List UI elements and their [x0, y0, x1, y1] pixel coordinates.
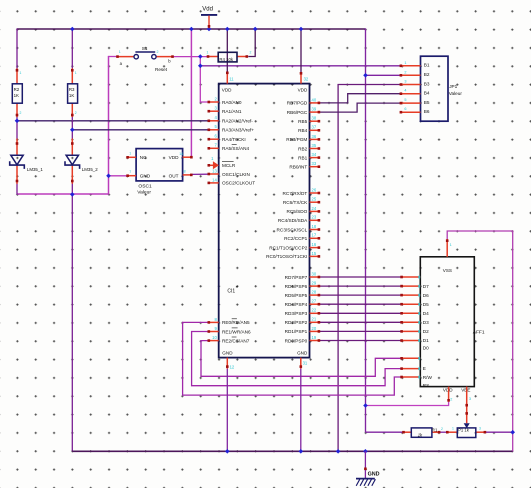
svg-text:2: 2 — [441, 427, 443, 431]
svg-text:RA4/T0CKI: RA4/T0CKI — [222, 137, 246, 142]
svg-text:RD0/PSP0: RD0/PSP0 — [285, 338, 308, 343]
junction — [363, 403, 368, 408]
svg-text:RD6/PSP6: RD6/PSP6 — [285, 284, 308, 289]
wire B2 horizontal — [366, 74, 401, 76]
svg-text:GND: GND — [368, 472, 380, 478]
svg-text:35: 35 — [312, 143, 317, 148]
svg-text:B4: B4 — [424, 91, 430, 96]
svg-text:14: 14 — [212, 177, 217, 182]
wire left column x17 upper — [16, 28, 18, 68]
svg-text:37: 37 — [312, 125, 317, 130]
PIC pin RC1/T1OSI/CCP2 — [269, 245, 320, 250]
wire LM35_1 node vertical — [16, 115, 18, 139]
svg-text:2: 2 — [157, 50, 159, 54]
svg-text:RC0/T1OSO/T1CKI: RC0/T1OSO/T1CKI — [266, 254, 307, 259]
svg-text:36: 36 — [312, 134, 317, 139]
wire OSC1 OUT to PIC OSC1/CLKIN — [191, 173, 209, 175]
svg-text:34: 34 — [312, 152, 317, 157]
svg-text:RD1/PSP1: RD1/PSP1 — [285, 329, 308, 334]
wire RD4/PSP4 to LCD D4 — [319, 303, 401, 305]
svg-text:R3: R3 — [69, 87, 75, 92]
wire Vdd rail right side x365.5 — [365, 28, 367, 432]
wire B1 horizontal y65.8 — [200, 65, 401, 67]
LCD pin stub — [402, 285, 421, 287]
svg-text:RB7/PGD: RB7/PGD — [287, 101, 308, 106]
svg-text:11: 11 — [229, 77, 234, 82]
PIC pin RD6/PSP6 — [285, 284, 321, 289]
svg-text:D1: D1 — [423, 338, 429, 343]
svg-text:1K: 1K — [69, 93, 74, 98]
svg-text:RB6/PGC: RB6/PGC — [287, 110, 308, 115]
svg-text:LM35_2: LM35_2 — [82, 167, 98, 172]
PIC pin RC7/RX/DT — [283, 191, 321, 196]
svg-text:R/W: R/W — [423, 375, 433, 380]
PIC pin RC5/SDO — [286, 209, 320, 214]
svg-text:2: 2 — [250, 51, 252, 55]
wire left column corner at LM35_1 bottom — [16, 184, 18, 195]
wire bus to PIC VDD right pin x301 — [300, 28, 302, 72]
svg-text:39: 39 — [312, 107, 317, 112]
LCD pin stub — [402, 330, 421, 332]
wire Vdd rail to OSC1 VDD x191.4 — [190, 28, 192, 157]
svg-text:JP1: JP1 — [449, 84, 457, 89]
svg-text:Valeur: Valeur — [137, 189, 151, 195]
PIC pin RB6/PGC — [287, 110, 320, 115]
PIC pin RA2/AN2/Vref- — [208, 119, 254, 124]
junction — [299, 27, 304, 32]
PIC pin RA5/SS/AN4 — [208, 145, 250, 151]
junction — [299, 449, 304, 454]
svg-text:RS: RS — [423, 383, 430, 388]
wire bus to R4 right pin — [248, 28, 255, 56]
svg-text:D3: D3 — [423, 320, 429, 325]
wire LM35_2 node vertical — [71, 115, 73, 139]
LCD pin stub — [402, 276, 421, 278]
svg-text:1: 1 — [207, 51, 209, 55]
PIC pin RC6/TX/CK — [283, 200, 320, 205]
wire Vdd top bus — [17, 28, 366, 30]
svg-text:8: 8 — [184, 170, 186, 174]
svg-text:RC3/SCK/SCL: RC3/SCK/SCL — [277, 227, 308, 232]
svg-text:RD7/PSP7: RD7/PSP7 — [285, 275, 308, 280]
svg-text:RB0/INT: RB0/INT — [289, 165, 307, 170]
svg-text:VDD: VDD — [222, 87, 232, 92]
wire RD3/PSP3 to LCD D3 — [319, 312, 401, 314]
svg-text:NC: NC — [140, 155, 147, 160]
junction — [198, 64, 203, 69]
svg-text:R1: R1 — [432, 428, 438, 433]
svg-text:12: 12 — [230, 364, 235, 369]
svg-text:10: 10 — [212, 335, 217, 340]
svg-text:17: 17 — [312, 233, 317, 238]
wire RE2 loop to LCD pin — [201, 341, 402, 377]
PIC pin RB2 — [298, 146, 320, 151]
wire RD1/PSP1 to LCD D1 — [319, 330, 401, 332]
svg-text:RC7/RX/DT: RC7/RX/DT — [283, 191, 308, 196]
wire node x200 vertical to RA0 — [200, 57, 209, 103]
PIC pin RE1/WR/AN6 — [208, 328, 252, 334]
svg-text:GND: GND — [140, 174, 151, 179]
svg-text:VEE: VEE — [461, 388, 470, 393]
svg-text:1: 1 — [404, 61, 406, 65]
resistor R3 1K — [68, 68, 78, 117]
svg-text:B6: B6 — [424, 109, 430, 114]
junction — [510, 430, 515, 435]
svg-text:RA3/AN3/Vref+: RA3/AN3/Vref+ — [222, 128, 254, 133]
svg-text:RD4/PSP4: RD4/PSP4 — [285, 302, 308, 307]
svg-text:RB1: RB1 — [298, 155, 308, 160]
PIC pin RA1/AN1 — [208, 109, 242, 114]
svg-text:AFF1: AFF1 — [473, 330, 485, 336]
wire switch row left segment — [109, 56, 118, 58]
resistor R2 1K — [12, 68, 22, 117]
svg-text:Vdd: Vdd — [202, 6, 213, 12]
svg-text:38: 38 — [312, 116, 317, 121]
resistor R4 10k — [207, 52, 248, 62]
wire ground return horizontal y194 — [17, 193, 109, 195]
PIC pin RD3/PSP3 — [285, 311, 321, 316]
svg-text:23: 23 — [312, 215, 317, 220]
junction — [198, 54, 203, 59]
junction — [70, 128, 75, 133]
svg-text:2: 2 — [450, 397, 452, 401]
svg-text:RC6/TX/CK: RC6/TX/CK — [283, 200, 308, 205]
svg-text:Valeur: Valeur — [449, 91, 463, 96]
svg-text:32: 32 — [304, 77, 309, 82]
svg-text:26: 26 — [312, 187, 317, 192]
svg-text:GND: GND — [222, 351, 233, 356]
svg-text:2: 2 — [404, 70, 406, 74]
svg-text:VDD: VDD — [169, 155, 180, 160]
svg-text:2: 2 — [75, 111, 77, 115]
svg-text:B1: B1 — [424, 63, 430, 68]
svg-text:30: 30 — [312, 271, 317, 276]
wire R1 to P1 link — [439, 431, 447, 433]
LCD display AFF1 — [420, 239, 474, 423]
wire LCD VDD tap y405.5 — [366, 402, 449, 406]
wire LM35_2 column down to ground bus — [71, 184, 73, 452]
potentiometer P1 1k — [446, 423, 486, 437]
svg-text:1K: 1K — [14, 93, 19, 98]
LCD pin stub — [402, 368, 421, 370]
junction — [225, 449, 230, 454]
svg-text:1: 1 — [452, 427, 454, 431]
junction — [207, 27, 212, 32]
PIC pin RE0/RD/AN5 — [208, 319, 251, 325]
PIC pin MCLR with arrow — [208, 161, 236, 169]
PIC pin RD5/PSP5 — [285, 293, 321, 298]
svg-text:14: 14 — [179, 152, 183, 156]
svg-text:RD3/PSP3: RD3/PSP3 — [285, 311, 308, 316]
svg-text:3: 3 — [479, 427, 481, 431]
svg-text:RE2/CS/AN7: RE2/CS/AN7 — [222, 338, 250, 343]
svg-text:RC4/SDI/SDA: RC4/SDI/SDA — [278, 218, 308, 223]
PIC pin OSC2/CLKOUT — [208, 181, 256, 186]
LCD pin stub — [402, 376, 421, 378]
svg-text:20: 20 — [312, 326, 317, 331]
wire switch left vertical x108.5 — [108, 56, 110, 195]
svg-text:RA2/AN2/Vref-: RA2/AN2/Vref- — [222, 119, 253, 124]
svg-text:1: 1 — [119, 50, 121, 54]
svg-text:3: 3 — [469, 397, 471, 401]
wire switch to R4 node segment — [173, 56, 209, 58]
wire RD2/PSP2 to LCD D2 — [319, 321, 401, 323]
svg-text:OSC2/CLKOUT: OSC2/CLKOUT — [222, 181, 255, 186]
resistor R1 1k — [402, 428, 440, 438]
wire RB6 to B5 — [319, 103, 401, 112]
svg-text:R4 10k: R4 10k — [219, 57, 233, 62]
wire B3 to ground bus via x338 — [338, 85, 401, 452]
wire RD7/PSP7 to LCD D7 — [319, 276, 401, 278]
PIC pin RD0/PSP0 — [285, 338, 321, 343]
svg-text:RB3/PGM: RB3/PGM — [286, 137, 307, 142]
oscillator OSC1 — [126, 149, 192, 196]
LCD pin stub — [402, 312, 421, 314]
PIC pin RA3/AN3/Vref+ — [208, 128, 255, 133]
svg-text:6: 6 — [404, 107, 406, 111]
LCD pin stub — [402, 303, 421, 305]
svg-text:RB2: RB2 — [298, 146, 308, 151]
junction — [15, 119, 20, 124]
PIC pin RB4 — [298, 128, 320, 133]
svg-text:3: 3 — [404, 80, 406, 84]
svg-text:16: 16 — [312, 242, 317, 247]
wire OSC1 GND tap — [109, 175, 130, 177]
svg-text:RA1/AN1: RA1/AN1 — [222, 109, 242, 114]
PIC pin RB0/INT — [289, 165, 320, 170]
PIC pin OSC1/CLKIN — [208, 172, 250, 177]
LCD pin stub — [402, 294, 421, 296]
wire PIC GND pin31 to ground bus — [300, 369, 302, 452]
svg-text:VSS: VSS — [443, 268, 452, 273]
PIC pin RD1/PSP1 — [285, 329, 321, 334]
PIC pin RC2/CCP1 — [284, 236, 320, 241]
svg-text:GND: GND — [297, 351, 308, 356]
svg-text:RD5/PSP5: RD5/PSP5 — [285, 293, 308, 298]
svg-text:D2: D2 — [423, 329, 429, 334]
PIC pin RC4/SDI/SDA — [278, 218, 320, 223]
diode sensor LM35_2 — [65, 139, 98, 184]
svg-text:LM35_1: LM35_1 — [27, 167, 43, 172]
wire bottom ground bus — [72, 450, 513, 452]
svg-text:R2: R2 — [14, 87, 20, 92]
junction — [70, 192, 75, 197]
svg-text:1: 1 — [75, 71, 77, 75]
svg-text:21: 21 — [312, 317, 317, 322]
LCD pin stub — [402, 357, 421, 359]
svg-text:40: 40 — [312, 97, 317, 102]
svg-text:RC5/SDO: RC5/SDO — [286, 209, 307, 214]
wire RD0/PSP0 to LCD D0 — [319, 340, 401, 342]
svg-text:OSC1: OSC1 — [138, 183, 152, 189]
wire R3 column x72 upper — [71, 28, 73, 68]
diode sensor LM35_1 — [10, 139, 44, 184]
svg-text:RE1/WR/AN6: RE1/WR/AN6 — [222, 329, 251, 334]
svg-text:RB5: RB5 — [298, 119, 308, 124]
svg-text:33: 33 — [312, 161, 317, 166]
svg-text:S1: S1 — [142, 46, 148, 51]
svg-text:RA0/AN0: RA0/AN0 — [222, 100, 242, 105]
svg-text:RC1/T1OSI/CCP2: RC1/T1OSI/CCP2 — [269, 245, 307, 250]
svg-text:RB4: RB4 — [298, 128, 308, 133]
svg-text:7: 7 — [129, 170, 131, 174]
svg-text:OSC1/CLKIN: OSC1/CLKIN — [222, 172, 250, 177]
junction — [363, 449, 368, 454]
svg-text:P1 1k: P1 1k — [458, 428, 470, 433]
svg-text:27: 27 — [312, 299, 317, 304]
power symbol Vdd — [201, 6, 217, 28]
svg-text:24: 24 — [312, 206, 317, 211]
svg-text:RC2/CCP1: RC2/CCP1 — [284, 236, 308, 241]
svg-text:15: 15 — [312, 251, 317, 256]
svg-text:B3: B3 — [424, 81, 430, 86]
PIC pin RD2/PSP2 — [285, 320, 321, 325]
PIC pin RD7/PSP7 — [285, 275, 321, 280]
svg-text:25: 25 — [312, 197, 317, 202]
wire PIC GND pin12 to ground bus — [226, 369, 228, 452]
junction — [70, 27, 75, 32]
svg-text:D6: D6 — [423, 293, 429, 298]
ground symbol GND — [356, 451, 380, 486]
connector JP1 — [400, 56, 463, 121]
svg-text:1: 1 — [450, 243, 452, 247]
junction — [189, 27, 194, 32]
PIC pin RA4/T0CKI — [208, 137, 246, 142]
wire bus to PIC VDD left pin x227.3 — [226, 28, 228, 72]
wire LCD VSS to right rail — [447, 231, 513, 451]
svg-text:2: 2 — [20, 111, 22, 115]
svg-text:5: 5 — [404, 98, 406, 102]
svg-text:B5: B5 — [424, 100, 430, 105]
svg-text:19: 19 — [312, 335, 317, 340]
svg-text:MCLR: MCLR — [222, 163, 236, 168]
svg-text:D4: D4 — [423, 311, 429, 316]
PIC pin RC3/SCK/SCL — [277, 227, 321, 232]
svg-text:29: 29 — [312, 281, 317, 286]
svg-text:22: 22 — [312, 308, 317, 313]
svg-text:D5: D5 — [423, 302, 429, 307]
wire Vdd rail corner to R1 — [366, 431, 404, 433]
PIC pin RB3/PGM — [286, 137, 320, 142]
wire RD6/PSP6 to LCD D6 — [319, 285, 401, 287]
svg-text:28: 28 — [312, 290, 317, 295]
junction — [225, 27, 230, 32]
junction — [336, 449, 341, 454]
svg-text:E: E — [423, 366, 426, 371]
wire P1 to right rail — [485, 431, 513, 433]
wire LM35_2 to RA3 y129.8 — [72, 129, 209, 131]
svg-text:4: 4 — [404, 89, 406, 93]
svg-text:D0: D0 — [423, 345, 429, 350]
svg-text:RE0/RD/AN5: RE0/RD/AN5 — [222, 320, 250, 325]
svg-text:VDD: VDD — [298, 87, 308, 92]
wire RD5/PSP5 to LCD D5 — [319, 294, 401, 296]
PIC microcontroller CI1 — [219, 72, 310, 369]
switch S1 Reset — [116, 46, 174, 72]
LCD pin stub — [402, 340, 421, 342]
PIC pin RB1 — [298, 155, 320, 160]
wire LM35_1 to RA2 y120.8 — [17, 120, 209, 122]
junction — [363, 73, 368, 78]
svg-text:CI1: CI1 — [227, 288, 235, 294]
svg-text:1: 1 — [129, 151, 131, 155]
svg-text:18: 18 — [312, 224, 317, 229]
svg-text:1: 1 — [20, 71, 22, 75]
junction — [106, 174, 111, 179]
svg-text:D7: D7 — [423, 284, 429, 289]
PIC pin RB7/PGD — [287, 101, 320, 106]
svg-text:31: 31 — [303, 361, 308, 366]
PIC pin RA0/AN0 — [208, 100, 242, 105]
svg-text:RA5/SS/AN4: RA5/SS/AN4 — [222, 146, 249, 151]
svg-text:Reset: Reset — [155, 67, 168, 72]
svg-text:RD2/PSP2: RD2/PSP2 — [285, 320, 308, 325]
svg-text:OUT: OUT — [169, 173, 179, 178]
wire RB7 to B4 — [319, 94, 401, 103]
PIC pin RE2/CS/AN7 — [208, 337, 250, 343]
PIC pin RC0/T1OSO/T1CKI — [266, 254, 320, 259]
junction — [253, 27, 258, 32]
wire RE0 loop to LCD R/W — [183, 322, 402, 395]
PIC pin RD4/PSP4 — [285, 302, 321, 307]
LCD pin stub — [402, 321, 421, 323]
PIC pin RB5 — [298, 119, 320, 124]
wire RE1 loop to LCD E — [192, 332, 402, 386]
svg-text:B2: B2 — [424, 72, 430, 77]
